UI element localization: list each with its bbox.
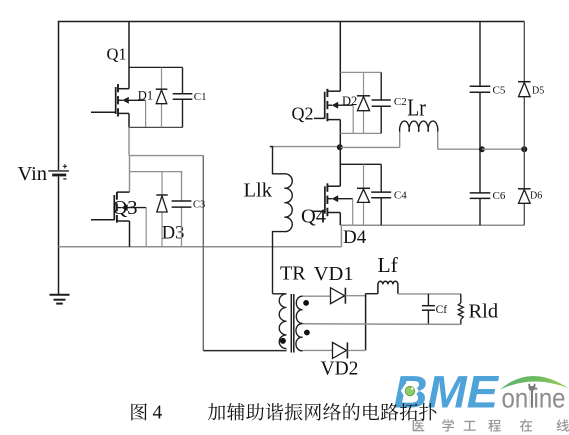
wire: node B to Lr <box>340 132 400 148</box>
label Q3 <box>113 197 138 219</box>
junction node B <box>337 144 343 150</box>
wire: bottom rail right section <box>340 224 524 226</box>
wire: Q2 snubber box top <box>340 71 381 73</box>
wire: Q1 source to node A <box>128 127 130 155</box>
svg-text:Q1: Q1 <box>107 45 127 64</box>
diode D3 <box>156 172 167 247</box>
wire: Q1 body tie <box>145 101 147 128</box>
wire: Q3 snubber box top <box>130 171 183 173</box>
svg-text:Vin: Vin <box>18 163 48 185</box>
label Llk <box>244 179 273 201</box>
diode D4 <box>357 164 370 225</box>
label Q1 <box>107 45 127 64</box>
wire: Q2 drain from top rail <box>327 22 340 92</box>
wire: bottom rail step <box>340 225 342 247</box>
wire: secondary bottom lead <box>303 349 333 351</box>
svg-text:C6: C6 <box>493 190 506 202</box>
label Rld <box>469 300 499 322</box>
label C1 <box>194 91 207 103</box>
label Lr <box>407 96 426 122</box>
label TR <box>280 263 306 285</box>
svg-text:D5: D5 <box>532 85 544 96</box>
capacitor C4 <box>371 164 391 225</box>
wire: Q4 drain from node B <box>327 147 340 186</box>
label D6 <box>530 190 542 201</box>
svg-text:C5: C5 <box>493 84 506 96</box>
logo Chinese tagline <box>413 419 569 432</box>
diode VD2 <box>333 342 348 358</box>
wire: secondary top lead <box>303 295 331 297</box>
capacitor C3 <box>172 172 192 247</box>
inductor Lr <box>400 121 438 132</box>
wire: center tap return rail <box>303 323 461 326</box>
label C2 <box>394 96 407 108</box>
transformer TR core <box>291 294 294 353</box>
resistor Rld <box>458 294 463 325</box>
wire: bus to Lf <box>366 293 378 295</box>
label D1 <box>138 89 153 103</box>
wire: Q3 source <box>117 221 130 247</box>
transistor Q3 body arrow <box>117 204 146 211</box>
wire: VD2 cathode to bus <box>347 349 365 351</box>
svg-text:Cf: Cf <box>436 304 448 316</box>
wire: primary bottom lead <box>203 350 286 352</box>
svg-text:Q3: Q3 <box>113 197 138 219</box>
label C6 <box>493 190 506 202</box>
node A wire to primary <box>129 155 203 157</box>
svg-text:D6: D6 <box>530 190 542 201</box>
svg-text:D2: D2 <box>342 94 357 108</box>
transistor Q3 <box>91 192 117 223</box>
svg-text:C2: C2 <box>394 96 407 108</box>
transistor Q1 body arrow <box>118 97 146 104</box>
diode D5 <box>518 22 531 150</box>
wire: top rail <box>59 21 525 23</box>
logo BME online <box>394 367 569 418</box>
label D5 <box>532 85 544 96</box>
wire: VD1 cathode to bus <box>345 295 365 297</box>
wire: Q1 snubber box bottom <box>129 126 183 128</box>
inductor Lf <box>378 281 398 294</box>
diode D2 <box>357 72 370 133</box>
svg-text:VD2: VD2 <box>321 359 359 380</box>
svg-text:Q2: Q2 <box>292 103 314 123</box>
wire: Q3 body tie <box>145 208 147 247</box>
wire: Q3 drain <box>117 156 130 193</box>
battery Vin <box>48 164 69 179</box>
transistor Q4 body arrow <box>327 195 352 202</box>
wire: bottom rail left section <box>59 246 342 248</box>
svg-text:Rld: Rld <box>469 300 499 322</box>
capacitor C2 <box>372 72 391 133</box>
transistor Q4 <box>312 183 328 216</box>
wire: Q1 source <box>118 113 129 127</box>
caption text <box>208 403 437 421</box>
svg-text:TR: TR <box>280 263 306 285</box>
label Q4 <box>301 205 326 227</box>
wire: left rail upper (Vin+) <box>58 21 60 170</box>
label D2 <box>342 94 357 108</box>
capacitor C5 <box>470 22 491 150</box>
svg-text:Lr: Lr <box>407 96 426 122</box>
wire: Lr to node C <box>438 132 482 149</box>
wire: Q2 snubber box bottom <box>340 132 381 134</box>
label D3 <box>162 224 185 244</box>
svg-text:D4: D4 <box>343 227 367 248</box>
capacitor C1 <box>173 67 193 127</box>
svg-text:C4: C4 <box>394 189 407 201</box>
diode D1 <box>156 67 168 127</box>
transformer TR secondary <box>296 296 303 351</box>
wire: node A down <box>202 156 204 351</box>
label D4 <box>343 227 367 248</box>
label Lf <box>378 253 399 277</box>
transistor Q2 <box>314 89 327 122</box>
inductor Llk <box>270 147 292 294</box>
svg-text:VD1: VD1 <box>314 263 354 285</box>
wire: Q1 snubber box top <box>129 66 183 68</box>
junction node C <box>479 146 485 152</box>
transformer TR primary <box>273 294 287 349</box>
ground <box>50 295 70 304</box>
svg-text:Q4: Q4 <box>301 205 326 227</box>
label VD1 <box>314 263 354 285</box>
svg-text:Lf: Lf <box>378 253 399 277</box>
capacitor C6 <box>470 149 491 225</box>
transistor Q2 body arrow <box>327 102 353 109</box>
wire: Q4 source <box>327 213 340 226</box>
label C3 <box>193 199 205 210</box>
transformer TR primary polarity dot <box>280 338 286 344</box>
svg-text:C1: C1 <box>194 91 207 103</box>
diode D6 <box>518 149 531 225</box>
label VD2 <box>321 359 359 380</box>
junction node D <box>521 146 527 152</box>
wire: Q2 body tie <box>352 105 354 133</box>
label Q2 <box>292 103 314 123</box>
diode VD1 <box>331 288 346 304</box>
svg-text:C3: C3 <box>193 199 205 210</box>
wire: Q4 snubber box top <box>340 163 381 165</box>
wire: Q4 body tie <box>352 199 354 226</box>
svg-text:Llk: Llk <box>244 179 273 201</box>
svg-text:4: 4 <box>153 402 163 423</box>
label Cf <box>436 304 448 316</box>
wire: Q1 drain from top rail <box>118 22 129 89</box>
wire: left rail lower (Vin-) <box>58 176 60 294</box>
label C4 <box>394 189 407 201</box>
wire: Lf to load <box>398 293 461 295</box>
wire: cathode bus <box>365 294 367 351</box>
transformer TR secondary polarity dots <box>303 300 310 335</box>
caption 图4 <box>131 402 162 423</box>
wire: node C to D5/D6 leg <box>482 148 524 150</box>
label C5 <box>493 84 506 96</box>
wire: Q2 source <box>327 120 340 148</box>
svg-text:D1: D1 <box>138 89 153 103</box>
transistor Q1 <box>91 84 118 117</box>
label Vin <box>18 163 48 185</box>
capacitor Cf <box>422 294 435 325</box>
wire: Llk top to node B <box>270 146 340 148</box>
